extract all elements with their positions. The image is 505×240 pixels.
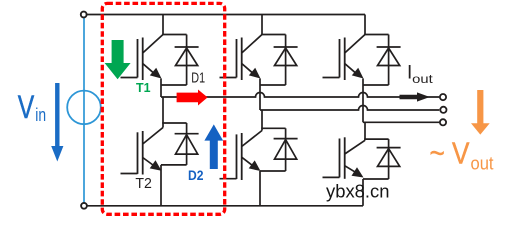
svg-text:in: in <box>35 105 46 125</box>
svg-text:V: V <box>18 89 35 125</box>
svg-text:out: out <box>471 153 494 173</box>
svg-text:T1: T1 <box>136 81 151 95</box>
svg-text:T2: T2 <box>135 176 152 192</box>
svg-text:~ V: ~ V <box>430 135 470 170</box>
svg-text:D2: D2 <box>188 167 204 183</box>
svg-text:D1: D1 <box>191 70 205 86</box>
svg-text:ybx8.cn: ybx8.cn <box>326 182 390 202</box>
svg-text:out: out <box>412 72 433 86</box>
